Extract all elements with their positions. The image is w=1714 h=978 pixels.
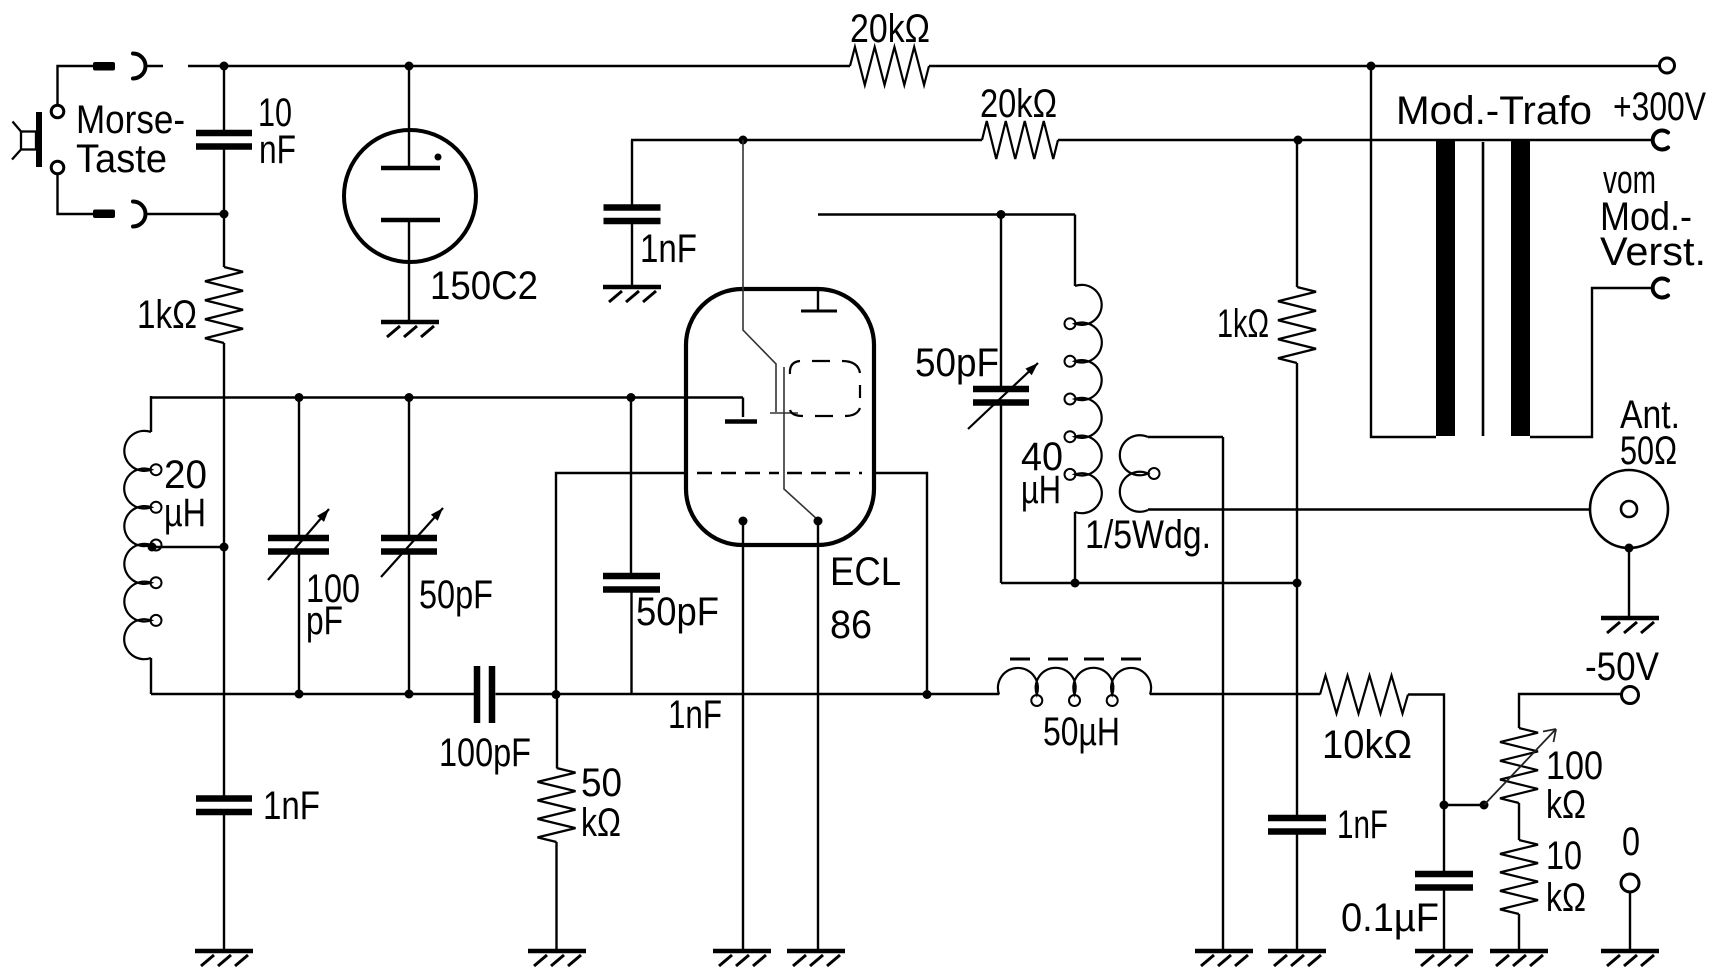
label 1nF right <box>1337 803 1388 847</box>
svg-text:nF: nF <box>259 128 296 172</box>
label 10 <box>258 91 292 135</box>
svg-text:50pF: 50pF <box>915 341 999 385</box>
ground (heater 5) <box>787 951 845 966</box>
svg-text:1kΩ: 1kΩ <box>1217 302 1269 346</box>
junction (1298,140) <box>1294 136 1303 145</box>
svg-text:1nF: 1nF <box>263 784 320 828</box>
svg-text:50pF: 50pF <box>636 590 719 634</box>
label Taste <box>76 137 167 181</box>
terminal -50V <box>1622 687 1639 704</box>
terminal vom Mod.-Verst. (secondary) <box>1653 279 1668 298</box>
wire top rail <box>188 65 850 67</box>
label 1kΩ right <box>1217 302 1269 346</box>
junction tank tap (152,547) <box>148 543 157 552</box>
wire 0 to ground <box>1629 892 1631 951</box>
ground (1nF right) <box>1268 951 1326 966</box>
capacitor 50pF variable <box>381 398 443 695</box>
wire 1k node down <box>1296 583 1298 818</box>
transformer Mod.-Trafo primary <box>1436 141 1455 436</box>
wire secondary bottom <box>1530 288 1652 437</box>
capacitor 1nF (screen) <box>604 140 661 287</box>
plug top <box>93 62 115 71</box>
junction (1001,214) <box>997 210 1006 219</box>
capacitor 1nF (bottom left) <box>196 799 252 813</box>
svg-text:86: 86 <box>830 603 872 647</box>
wire rail to 150C2 <box>408 66 410 168</box>
junction (224,214) <box>220 210 229 219</box>
resistor 20kΩ (screen) <box>982 121 1058 159</box>
capacitor 100pF variable <box>268 398 329 695</box>
junction (927,694) <box>923 690 932 699</box>
label Verst. <box>1600 230 1706 274</box>
ground (150C2) <box>381 322 439 337</box>
label 1kΩ left <box>137 293 197 337</box>
svg-text:1nF: 1nF <box>668 693 722 737</box>
svg-text:kΩ: kΩ <box>1546 876 1586 920</box>
wire coil top lead <box>150 396 152 432</box>
inductor core dashes <box>1010 658 1141 661</box>
svg-text:50pF: 50pF <box>419 573 493 617</box>
wire tank bottom rail <box>151 693 474 695</box>
label 50pF grid <box>636 590 719 634</box>
ECL86 heater pin 4 <box>739 517 748 952</box>
inductor link 1/5Wdg <box>1120 435 1160 512</box>
label -50V <box>1585 645 1659 689</box>
label vom <box>1603 158 1656 202</box>
label 86 <box>830 603 872 647</box>
ECL86 pentode g1 lead <box>743 140 798 413</box>
label kΩ (50k) <box>581 801 621 845</box>
svg-text:20kΩ: 20kΩ <box>850 7 930 51</box>
resistor 10kΩ (bias) <box>1500 840 1538 914</box>
ECL86 g3 lead <box>784 367 818 520</box>
label µH (20µH) <box>164 491 206 535</box>
svg-text:kΩ: kΩ <box>1546 783 1586 827</box>
ground (antenna) <box>1601 618 1659 633</box>
label +300V <box>1613 85 1706 129</box>
wire tank to grid leak node <box>496 693 1000 695</box>
terminal vom Mod.-Verst. (screen rail) <box>1653 131 1668 150</box>
transformer secondary <box>1511 141 1530 436</box>
svg-text:Verst.: Verst. <box>1600 230 1706 274</box>
wire wiper <box>1444 804 1484 806</box>
svg-text:0.1µF: 0.1µF <box>1341 896 1439 940</box>
svg-text:1kΩ: 1kΩ <box>137 293 197 337</box>
connector Ant. 50Ω <box>1590 470 1668 548</box>
label nF <box>259 128 296 172</box>
svg-text:pF: pF <box>306 599 343 643</box>
label Ant. <box>1620 393 1680 437</box>
wire morse top <box>58 66 94 105</box>
ECL86 pentode cathode out <box>874 473 927 694</box>
svg-text:1nF: 1nF <box>1337 803 1388 847</box>
label 1nF (cathode line) <box>668 693 722 737</box>
svg-text:kΩ: kΩ <box>581 801 621 845</box>
label 1nF bottom left <box>263 784 320 828</box>
wire choke to 10k <box>1150 693 1320 695</box>
capacitor 50pF (grid) <box>603 398 660 695</box>
capacitor 1nF (right) <box>1268 818 1326 832</box>
junction node C (1371,66) <box>1367 62 1376 71</box>
resistor 20kΩ (top rail) <box>850 47 929 85</box>
ECL86 pentode plate lead <box>801 289 837 311</box>
150C2 anode electrode <box>381 166 440 171</box>
transformer core <box>1482 142 1485 436</box>
svg-text:100pF: 100pF <box>439 731 531 775</box>
ground (grid leak) <box>528 951 586 966</box>
wire coil bottom <box>1074 512 1076 583</box>
tube ECL86 envelope <box>686 289 874 545</box>
label 20kΩ top <box>850 7 930 51</box>
resistor 1kΩ (dropper) <box>1278 140 1316 583</box>
junction antenna shield <box>1625 544 1634 553</box>
label 20kΩ screen <box>980 82 1057 126</box>
wire 1nF to ground <box>1296 832 1298 952</box>
wire antenna line <box>1148 508 1590 510</box>
wire node to cap <box>223 66 225 133</box>
capacitor 10nF <box>196 133 252 147</box>
junction (1075,583) <box>1071 579 1080 588</box>
ground (link) <box>1195 951 1253 966</box>
terminal 0 <box>1621 874 1639 892</box>
svg-text:+300V: +300V <box>1613 85 1706 129</box>
label 40 <box>1021 435 1063 479</box>
junction (299,694) <box>295 690 304 699</box>
svg-text:µH: µH <box>164 491 206 535</box>
jack bottom <box>133 201 146 226</box>
svg-text:150C2: 150C2 <box>430 264 538 308</box>
wire +300V to primary <box>1371 66 1436 437</box>
svg-text:50: 50 <box>581 761 622 805</box>
junction (299,397) <box>295 393 304 402</box>
wire coil bottom lead <box>150 658 152 694</box>
label 100pF <box>439 731 531 775</box>
150C2 cathode electrode <box>381 218 440 223</box>
wire anode to tank <box>818 215 1075 287</box>
ground (heater 4) <box>713 951 771 966</box>
jack top <box>133 54 146 79</box>
svg-text:-50V: -50V <box>1585 645 1659 689</box>
ground (screen bypass) <box>603 287 661 302</box>
junction (1484,805) <box>1480 801 1489 810</box>
wire link ground line <box>1222 437 1224 951</box>
label Mod.-Trafo <box>1396 89 1592 133</box>
junction (1444,805) <box>1440 801 1449 810</box>
wire bias res to ground <box>1518 914 1520 951</box>
wire link top <box>1148 436 1223 438</box>
wire node2 down <box>223 214 225 267</box>
label 20 <box>164 453 207 497</box>
svg-text:µH: µH <box>1021 468 1061 512</box>
ground (0 terminal) <box>1601 951 1659 966</box>
label 150C2 <box>430 264 538 308</box>
label 50Ω <box>1620 429 1677 473</box>
label 50pF tank <box>915 341 999 385</box>
junction (1297,583) <box>1293 579 1302 588</box>
wire 150C2 to ground <box>408 220 410 322</box>
label 100 <box>306 567 360 611</box>
capacitor 100pF series <box>477 666 492 723</box>
label kΩ (bias) <box>1546 876 1586 920</box>
wire 1kΩ to tank tap and down <box>223 343 225 796</box>
150C2 gas dot <box>435 154 442 161</box>
svg-text:50µH: 50µH <box>1043 710 1120 754</box>
label 10 (bias) <box>1546 834 1582 878</box>
resistor 10kΩ <box>1320 676 1408 714</box>
label 50 <box>581 761 622 805</box>
label 0 <box>1622 820 1640 864</box>
label 100 (pot) <box>1546 744 1603 788</box>
wire -50V feed <box>1519 694 1622 728</box>
svg-text:10kΩ: 10kΩ <box>1322 723 1412 767</box>
svg-text:Mod.-Trafo: Mod.-Trafo <box>1396 89 1592 133</box>
ground (bias divider) <box>1490 951 1548 966</box>
ECL86 triode grid lead <box>725 398 757 422</box>
wire cap to ground <box>223 812 225 951</box>
morse key terminal top <box>51 105 64 118</box>
label 1nF screen <box>640 227 697 271</box>
inductor 50µH choke <box>998 668 1151 706</box>
morse key switch <box>12 112 42 167</box>
svg-text:1nF: 1nF <box>640 227 697 271</box>
terminal +300V <box>1660 58 1675 73</box>
wire top rail right <box>929 65 1660 67</box>
wire antenna shield to ground <box>1628 548 1630 617</box>
svg-text:10: 10 <box>1546 834 1582 878</box>
wire bottom jack to node <box>146 213 224 215</box>
svg-text:100: 100 <box>1546 744 1603 788</box>
label 10kΩ <box>1322 723 1412 767</box>
inductor 20µH <box>124 431 161 659</box>
svg-text:ECL: ECL <box>830 550 901 594</box>
potentiometer 100kΩ <box>1500 728 1538 803</box>
svg-text:0: 0 <box>1622 820 1640 864</box>
capacitor 0.1µF <box>1415 874 1473 888</box>
wire 10k corner down <box>1408 695 1444 875</box>
ground (keying filter) <box>195 951 253 966</box>
label 50pF (variable) <box>419 573 493 617</box>
junction node B (409,66) <box>405 62 414 71</box>
svg-text:Taste: Taste <box>76 137 167 181</box>
label Morse- <box>76 98 185 142</box>
wire cap to node2 <box>223 147 225 215</box>
morse key terminal bottom <box>51 161 64 174</box>
wire screen rail <box>631 139 982 141</box>
junction (556,694) <box>552 690 561 699</box>
wire tap <box>152 546 224 548</box>
ECL86 pentode anode (dashed box) <box>790 361 860 416</box>
junction (224,547) <box>220 543 229 552</box>
wire pot to 10k <box>1518 803 1520 840</box>
svg-text:Morse-: Morse- <box>76 98 185 142</box>
wire grid rail y=397 <box>151 396 743 398</box>
junction (631,397) <box>627 393 636 402</box>
wire tank bottom <box>1001 582 1297 584</box>
tube 150C2 envelope <box>344 130 476 262</box>
label ECL <box>830 550 901 594</box>
label kΩ (pot) <box>1546 783 1586 827</box>
wire screen rail right <box>1058 139 1652 141</box>
ECL86 cathode (dashed) <box>697 472 862 474</box>
junction (409,397) <box>405 393 414 402</box>
svg-text:50Ω: 50Ω <box>1620 429 1677 473</box>
label µH (40µH) <box>1021 468 1061 512</box>
resistor 50kΩ grid leak <box>538 694 576 951</box>
ground (0.1µF) <box>1415 951 1473 966</box>
svg-text:20kΩ: 20kΩ <box>980 82 1057 126</box>
capacitor 50pF variable (tank) <box>968 215 1038 584</box>
inductor 40µH <box>1065 285 1102 513</box>
wire morse bottom <box>58 174 94 214</box>
label pF (100pF) <box>306 599 343 643</box>
wire 0.1µF to ground <box>1443 888 1445 952</box>
resistor 1kΩ (keying) <box>205 267 243 343</box>
junction (743,140) <box>739 136 748 145</box>
label 50µH <box>1043 710 1120 754</box>
label 1/5Wdg. <box>1085 513 1211 557</box>
ECL86 heater pin 5 <box>814 517 823 952</box>
potentiometer wiper arrow <box>1484 729 1556 805</box>
ECL86 cathode lead out <box>556 473 686 694</box>
junction (409,694) <box>405 690 414 699</box>
wire top rail left segment <box>146 65 163 67</box>
plug bottom <box>93 210 115 219</box>
junction node A (224,66) <box>220 62 229 71</box>
svg-text:1/5Wdg.: 1/5Wdg. <box>1085 513 1211 557</box>
label 0.1µF <box>1341 896 1439 940</box>
label Mod.- <box>1600 195 1692 239</box>
